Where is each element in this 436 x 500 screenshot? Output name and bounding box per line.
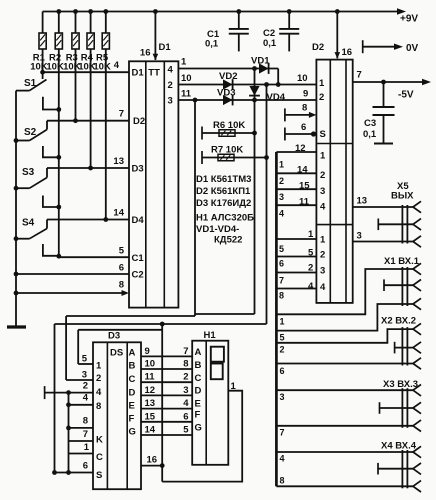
svg-text:C: C (96, 452, 103, 463)
svg-text:12: 12 (145, 385, 156, 396)
svg-text:4: 4 (83, 393, 89, 404)
svg-text:VD4: VD4 (267, 92, 286, 103)
svg-text:10K: 10K (46, 62, 64, 73)
svg-text:0,1: 0,1 (205, 39, 219, 50)
svg-text:10K: 10K (30, 62, 48, 73)
svg-text:1: 1 (84, 442, 90, 453)
svg-text:4: 4 (183, 398, 189, 409)
svg-text:4: 4 (168, 65, 174, 76)
svg-text:X4 ВХ.4: X4 ВХ.4 (381, 441, 417, 452)
svg-text:16: 16 (342, 47, 353, 58)
svg-text:X1 ВХ.1: X1 ВХ.1 (384, 256, 420, 267)
svg-text:TT: TT (148, 68, 160, 79)
svg-text:D1: D1 (132, 68, 145, 79)
svg-text:D2: D2 (133, 116, 145, 127)
svg-text:E: E (129, 401, 135, 412)
svg-text:3: 3 (320, 266, 325, 277)
svg-text:16: 16 (140, 48, 151, 59)
svg-text:ВЫХ: ВЫХ (391, 191, 414, 202)
svg-text:6: 6 (83, 461, 88, 472)
svg-text:G: G (195, 423, 202, 434)
svg-text:10K: 10K (93, 62, 111, 73)
svg-text:3: 3 (279, 192, 284, 202)
svg-text:2: 2 (279, 176, 284, 186)
svg-text:2: 2 (320, 170, 325, 181)
svg-text:B: B (129, 361, 136, 372)
svg-text:D1 К561ТМ3: D1 К561ТМ3 (196, 174, 251, 185)
svg-text:3: 3 (357, 231, 362, 242)
svg-text:3: 3 (280, 392, 285, 402)
svg-text:S3: S3 (22, 167, 35, 178)
svg-text:5: 5 (119, 246, 125, 257)
svg-text:S2: S2 (24, 127, 37, 138)
svg-text:6: 6 (280, 366, 285, 376)
svg-text:G: G (129, 427, 136, 438)
svg-text:5: 5 (280, 333, 285, 343)
svg-text:D4: D4 (132, 215, 145, 226)
svg-text:1: 1 (96, 361, 102, 372)
svg-text:9: 9 (303, 89, 308, 100)
svg-text:10: 10 (181, 73, 192, 84)
svg-text:2: 2 (83, 381, 88, 392)
svg-text:D2 К561КП1: D2 К561КП1 (196, 186, 251, 197)
svg-text:8: 8 (96, 401, 101, 412)
svg-text:+9V: +9V (400, 14, 418, 25)
svg-text:4: 4 (280, 454, 285, 464)
svg-text:F: F (129, 414, 135, 425)
svg-text:7: 7 (279, 276, 284, 286)
svg-text:7: 7 (357, 70, 362, 81)
svg-text:15: 15 (145, 411, 156, 422)
svg-text:13: 13 (145, 398, 156, 409)
svg-text:4: 4 (320, 202, 326, 213)
svg-text:6: 6 (279, 259, 284, 269)
svg-text:VD2: VD2 (219, 71, 237, 82)
svg-text:3: 3 (168, 96, 173, 107)
svg-text:B: B (195, 360, 202, 371)
svg-text:R7 10K: R7 10K (211, 145, 243, 156)
svg-text:1: 1 (280, 317, 285, 327)
svg-text:4: 4 (320, 282, 326, 293)
svg-text:S1: S1 (24, 78, 37, 89)
svg-text:16: 16 (147, 455, 158, 466)
svg-text:C2: C2 (132, 270, 144, 281)
svg-text:X3 ВХ.3: X3 ВХ.3 (383, 379, 418, 390)
svg-text:8: 8 (183, 359, 188, 370)
svg-text:13: 13 (113, 156, 124, 167)
svg-text:5: 5 (279, 244, 284, 254)
svg-text:1: 1 (279, 160, 284, 170)
svg-text:VD1: VD1 (251, 56, 270, 67)
svg-text:E: E (195, 399, 201, 410)
svg-text:A: A (129, 348, 136, 359)
svg-text:D3 К176ИД2: D3 К176ИД2 (196, 198, 251, 209)
svg-text:11: 11 (145, 372, 156, 383)
svg-text:D3: D3 (108, 331, 120, 342)
svg-text:10: 10 (145, 359, 156, 370)
svg-text:7: 7 (83, 429, 88, 440)
svg-text:11: 11 (181, 89, 192, 100)
svg-text:S: S (320, 129, 326, 140)
svg-text:4: 4 (279, 209, 284, 219)
svg-text:1: 1 (320, 235, 326, 246)
svg-text:4: 4 (308, 281, 314, 292)
svg-text:14: 14 (145, 425, 156, 436)
svg-text:S: S (96, 470, 102, 481)
svg-text:4: 4 (114, 60, 120, 71)
svg-text:8: 8 (302, 103, 307, 114)
svg-text:D: D (129, 388, 136, 399)
svg-text:2: 2 (183, 372, 188, 383)
svg-text:7: 7 (119, 109, 124, 120)
svg-text:4: 4 (96, 387, 102, 398)
svg-text:3: 3 (183, 385, 188, 396)
svg-text:0V: 0V (406, 43, 419, 54)
svg-text:7: 7 (183, 346, 188, 357)
svg-text:10: 10 (297, 73, 308, 84)
svg-text:-5V: -5V (398, 90, 414, 101)
svg-text:C: C (195, 373, 202, 384)
svg-text:K: K (96, 435, 103, 446)
svg-text:VD3: VD3 (217, 88, 235, 99)
svg-text:8: 8 (83, 416, 88, 427)
svg-text:1: 1 (320, 151, 326, 162)
svg-text:D3: D3 (132, 164, 144, 175)
svg-text:2: 2 (319, 92, 324, 103)
svg-text:C3: C3 (364, 118, 376, 129)
svg-text:КД522: КД522 (214, 235, 242, 246)
svg-text:H1: H1 (204, 330, 217, 341)
svg-text:0,1: 0,1 (263, 38, 277, 49)
svg-text:8: 8 (119, 280, 124, 291)
svg-text:H1 АЛС320Б: H1 АЛС320Б (196, 213, 254, 224)
svg-text:6: 6 (301, 122, 306, 133)
svg-text:13: 13 (357, 196, 368, 207)
svg-text:X2 ВХ.2: X2 ВХ.2 (381, 316, 416, 327)
svg-text:7: 7 (280, 428, 285, 438)
svg-text:D1: D1 (159, 42, 172, 53)
svg-text:A: A (195, 347, 202, 358)
svg-text:14: 14 (113, 208, 124, 219)
svg-text:R6 10K: R6 10K (213, 120, 245, 131)
svg-text:1: 1 (319, 78, 325, 89)
svg-text:3: 3 (82, 370, 87, 381)
svg-text:C1: C1 (132, 253, 145, 264)
svg-text:VD1-VD4-: VD1-VD4- (196, 224, 239, 235)
svg-text:C: C (129, 374, 136, 385)
svg-text:0,1: 0,1 (363, 129, 377, 140)
svg-text:5: 5 (183, 425, 189, 436)
svg-text:6: 6 (119, 263, 124, 274)
svg-text:8: 8 (279, 291, 284, 301)
svg-text:3: 3 (320, 186, 325, 197)
svg-text:2: 2 (320, 250, 325, 261)
svg-text:DS: DS (110, 348, 123, 359)
svg-text:6: 6 (183, 411, 188, 422)
svg-text:1: 1 (181, 57, 187, 68)
svg-text:D: D (195, 386, 202, 397)
svg-text:2: 2 (280, 345, 285, 355)
svg-text:8: 8 (280, 476, 285, 486)
svg-text:2: 2 (96, 373, 101, 384)
svg-text:D2: D2 (312, 42, 324, 53)
svg-text:F: F (195, 410, 201, 421)
svg-text:S4: S4 (22, 218, 35, 229)
svg-text:9: 9 (145, 346, 150, 357)
svg-text:2: 2 (168, 80, 173, 91)
svg-text:5: 5 (82, 354, 88, 365)
